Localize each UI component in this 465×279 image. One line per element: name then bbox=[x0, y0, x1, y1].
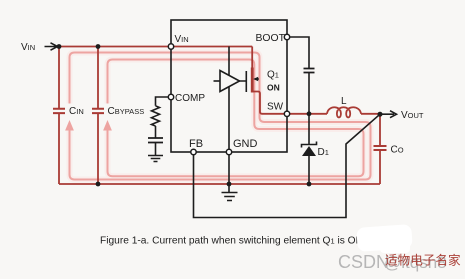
svg-text:VIN: VIN bbox=[21, 42, 35, 53]
svg-text:FB: FB bbox=[189, 138, 203, 150]
svg-text:VOUT: VOUT bbox=[401, 110, 424, 121]
svg-text:ON: ON bbox=[267, 83, 280, 93]
svg-text:Q1: Q1 bbox=[267, 70, 279, 81]
svg-text:SW: SW bbox=[267, 102, 284, 113]
svg-text:CO: CO bbox=[391, 145, 404, 156]
svg-text:CIN: CIN bbox=[69, 106, 84, 117]
svg-text:Figure 1-a. Current path when: Figure 1-a. Current path when switching … bbox=[100, 236, 363, 247]
svg-text:CBYPASS: CBYPASS bbox=[108, 106, 145, 117]
svg-text:GND: GND bbox=[233, 138, 258, 150]
svg-text:BOOT: BOOT bbox=[256, 33, 286, 44]
svg-text:CSDN: CSDN bbox=[338, 252, 389, 272]
svg-text:L: L bbox=[341, 96, 347, 107]
svg-text:适物电子名家: 适物电子名家 bbox=[385, 253, 461, 268]
svg-text:COMP: COMP bbox=[175, 93, 205, 104]
svg-text:D1: D1 bbox=[318, 147, 329, 158]
svg-text:VIN: VIN bbox=[175, 34, 189, 45]
